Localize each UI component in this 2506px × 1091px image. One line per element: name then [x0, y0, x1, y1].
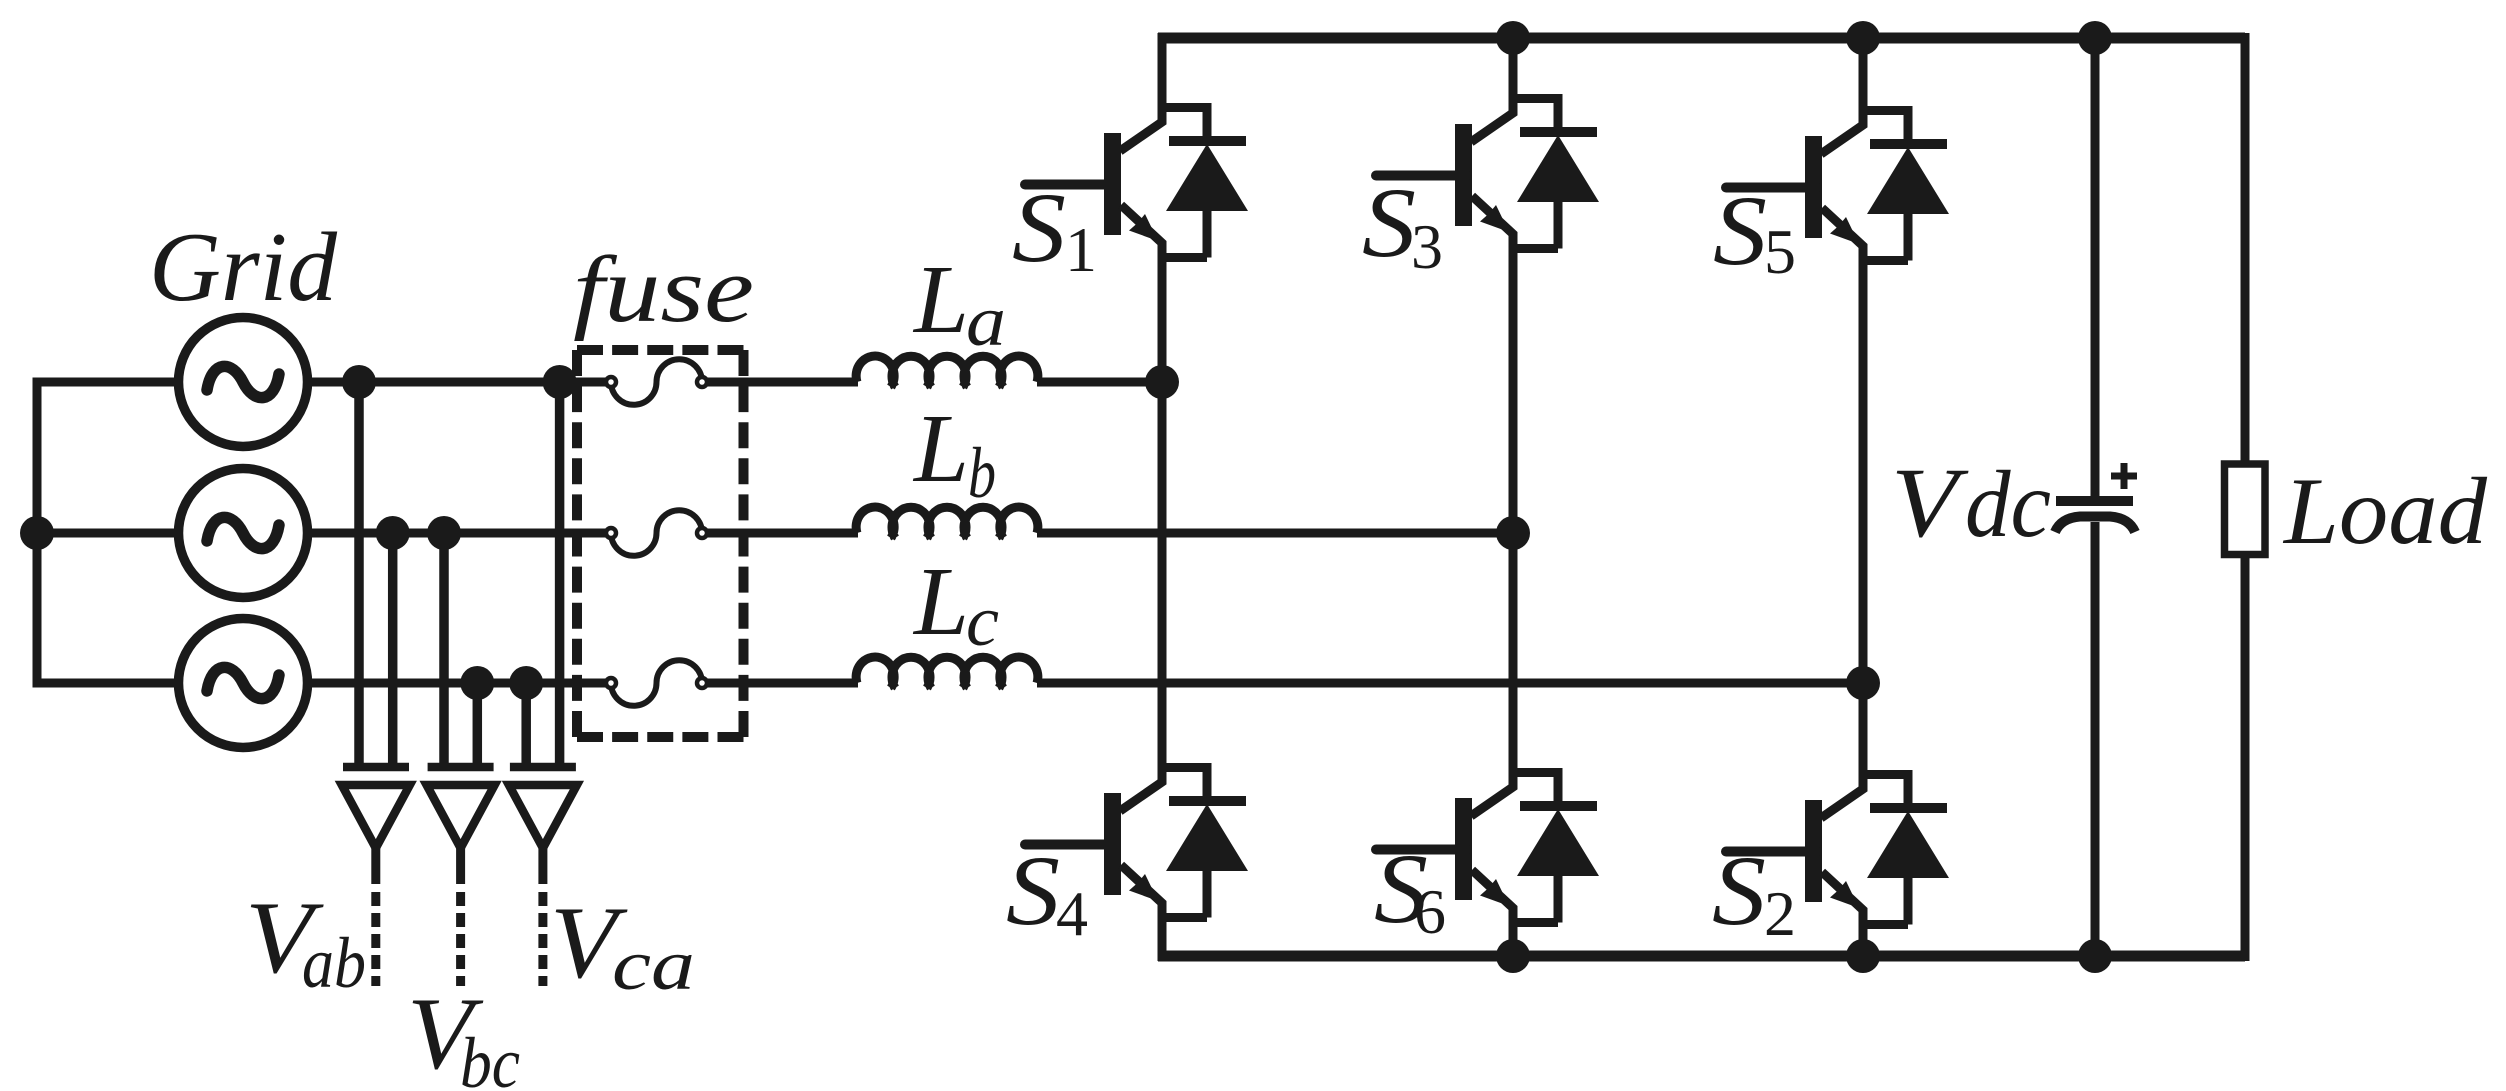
svg-text:S: S: [1006, 835, 1060, 946]
svg-text:Grid: Grid: [149, 213, 337, 322]
svg-text:L: L: [912, 548, 969, 656]
svg-text:V: V: [1891, 447, 1969, 558]
svg-text:b: b: [968, 433, 996, 513]
svg-text:fuse: fuse: [573, 238, 754, 342]
svg-text:Load: Load: [2282, 458, 2488, 564]
svg-text:L: L: [912, 246, 969, 354]
svg-text:5: 5: [1764, 216, 1796, 287]
svg-text:S: S: [1012, 172, 1066, 283]
svg-text:ca: ca: [612, 925, 695, 1005]
svg-text:6: 6: [1414, 876, 1446, 947]
svg-text:c: c: [966, 581, 999, 661]
svg-text:1: 1: [1065, 214, 1097, 285]
svg-text:S: S: [1362, 167, 1416, 278]
svg-text:ab: ab: [302, 923, 366, 1003]
svg-text:4: 4: [1056, 878, 1088, 949]
svg-text:3: 3: [1411, 211, 1443, 282]
svg-text:S: S: [1712, 835, 1766, 946]
svg-text:dc: dc: [1965, 451, 2051, 557]
svg-text:S: S: [1713, 175, 1767, 286]
svg-text:a: a: [966, 281, 1006, 361]
svg-text:2: 2: [1764, 878, 1796, 949]
svg-text:L: L: [912, 395, 969, 503]
svg-text:bc: bc: [460, 1023, 520, 1091]
